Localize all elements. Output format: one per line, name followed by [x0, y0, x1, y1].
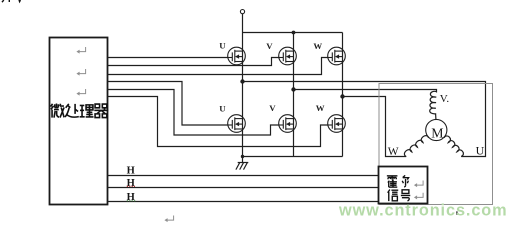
label 信号 — [388, 190, 399, 202]
winding W (inductor) — [404, 136, 428, 157]
wire: gate drive 5 (to Q5) — [108, 90, 279, 136]
return mark after 信号 — [414, 193, 423, 200]
svg-text:U: U — [219, 40, 226, 50]
transistor Q1 — [228, 47, 246, 65]
motor enclosure (gray box) — [379, 84, 493, 205]
wire: drain rail — [243, 32, 343, 34]
spellcheck dots under Hc — [127, 200, 136, 202]
svg-text:W: W — [313, 41, 322, 51]
wire: column 2 (Q2 / Q5) — [293, 33, 295, 157]
label 霍尔 — [387, 176, 398, 187]
return mark after 霍尔 — [414, 181, 423, 188]
label 微处理器 on microprocessor — [51, 103, 65, 117]
wire: supply drop to drain rail — [242, 14, 244, 33]
svg-text:V: V — [269, 103, 276, 113]
node: source rail / Q4 — [241, 155, 244, 158]
svg-text:W: W — [316, 103, 325, 113]
motor M circle — [426, 119, 447, 140]
svg-text:V.: V. — [440, 93, 450, 105]
transistor Q5 — [279, 115, 297, 133]
transistor Q2 — [279, 47, 297, 65]
wire: lower source rail — [243, 156, 343, 158]
return mark below schematic — [164, 216, 173, 223]
transistor Q4 — [228, 115, 246, 133]
svg-text:U: U — [219, 104, 226, 114]
svg-text:V: V — [266, 41, 273, 51]
wire: gate drive 6 (to Q6) — [108, 97, 328, 147]
wire: phase U bus — [243, 82, 486, 157]
wire: column 1 (Q1 drain-source / Q4) — [242, 33, 244, 157]
stray ink speck — [456, 211, 457, 214]
stray text fragment top-left — [2, 0, 20, 2]
return mark 1 inside microprocessor — [76, 47, 85, 54]
wire: phase V bus — [294, 90, 437, 93]
return mark 3 inside microprocessor — [76, 89, 85, 96]
hall sensor box — [379, 167, 428, 204]
wire: gate drive 1 (to Q1) — [108, 57, 228, 59]
transistor Q6 — [328, 115, 346, 133]
return mark 2 inside microprocessor — [76, 69, 85, 76]
wire: hall signal Hc — [108, 201, 379, 203]
winding U (inductor) — [444, 136, 463, 157]
wire: gate drive 4 (to Q4) — [108, 82, 228, 126]
wire: gate drive 2 (to Q2) — [108, 58, 279, 66]
wire: hall signal Ha — [108, 175, 379, 177]
spellcheck dots under Hb — [127, 185, 135, 187]
microprocessor U1 box — [50, 38, 108, 205]
svg-text:M: M — [431, 126, 443, 141]
node: phase W junction — [340, 94, 344, 98]
ground — [236, 157, 248, 170]
transistor Q3 — [328, 47, 346, 65]
wire: hall signal Hb — [108, 187, 379, 189]
svg-text:W: W — [388, 146, 399, 158]
svg-text:www.cntronics.com: www.cntronics.com — [338, 202, 508, 220]
wire: column 3 (Q3 / Q6) — [342, 33, 344, 157]
node: phase V junction — [291, 87, 295, 91]
winding V (inductor) — [430, 91, 437, 119]
node: phase U junction — [240, 79, 244, 83]
svg-text:U: U — [476, 144, 485, 158]
wire: phase W bus — [343, 97, 407, 157]
node: drain rail / Q2 column junction — [292, 31, 296, 35]
wire: gate drive 3 (to Q3) — [108, 58, 328, 75]
svg-text:H: H — [127, 178, 135, 189]
svg-text:H: H — [127, 165, 135, 176]
supply terminal (open circle) — [240, 10, 244, 14]
